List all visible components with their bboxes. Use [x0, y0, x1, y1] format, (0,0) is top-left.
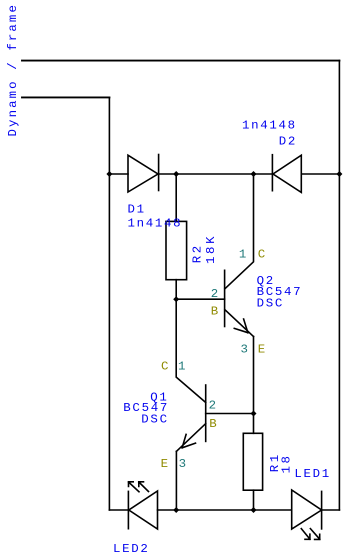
svg-text:B: B [211, 305, 220, 319]
svg-text:R2: R2 [191, 243, 205, 263]
resistor R1 [243, 433, 262, 490]
transistor Q2 [225, 174, 254, 337]
wire Q1 collector lead [176, 299, 206, 402]
transistor Q1 [176, 385, 205, 451]
junction left rail / mid rail [106, 171, 112, 177]
LED LED1 [292, 490, 322, 539]
svg-text:C: C [161, 360, 170, 374]
wire mid rail middle [159, 173, 273, 175]
wire dynamo lead (top rail) [22, 60, 339, 62]
resistor R2 [166, 221, 187, 279]
svg-text:3: 3 [179, 457, 188, 471]
wire mid rail left [109, 173, 128, 175]
wire R1 bottom lead [253, 490, 255, 510]
svg-text:1n4148: 1n4148 [242, 119, 297, 133]
svg-text:1: 1 [178, 360, 187, 374]
svg-text:Dynamo / frame: Dynamo / frame [6, 3, 20, 137]
diode D2 [272, 155, 301, 193]
svg-text:D2: D2 [279, 135, 297, 149]
wire bottom rail left [109, 509, 128, 511]
junction Q2 collector / mid rail [251, 171, 257, 177]
wire Q2 base lead [176, 298, 224, 300]
wire left rail [108, 97, 110, 510]
wire Q1 emitter lead [175, 451, 177, 510]
wire bottom rail middle [158, 509, 292, 511]
svg-text:E: E [258, 343, 267, 357]
junction R2 / Q2 base node [173, 296, 179, 302]
svg-text:DSC: DSC [141, 412, 168, 426]
svg-text:1n4148: 1n4148 [128, 217, 183, 231]
svg-text:18K: 18K [204, 234, 218, 264]
svg-text:C: C [258, 247, 267, 261]
svg-text:E: E [161, 457, 170, 471]
diode D1 [128, 155, 159, 193]
svg-text:B: B [209, 417, 218, 431]
svg-text:DSC: DSC [257, 297, 284, 311]
wire bottom rail right [322, 509, 340, 511]
wire Q2 emitter lead [253, 337, 255, 414]
svg-text:18: 18 [280, 453, 294, 473]
LED LED2 [128, 482, 157, 529]
wire right rail [338, 61, 340, 510]
svg-text:D1: D1 [128, 202, 146, 216]
wire R1 top lead [253, 414, 255, 434]
wire frame lead [22, 96, 109, 98]
junction right rail / mid rail [336, 171, 342, 177]
svg-text:3: 3 [241, 343, 250, 357]
junction R2 / mid rail [173, 171, 179, 177]
wire Q1 base lead [206, 413, 254, 415]
junction Q1 base / R1 node [251, 411, 257, 417]
svg-text:LED2: LED2 [113, 542, 150, 556]
svg-text:2: 2 [211, 287, 220, 301]
junction Q1 emitter / bottom rail [173, 507, 179, 513]
junction R1 / bottom rail [251, 507, 257, 513]
wire R2 top lead [175, 174, 177, 221]
svg-text:1: 1 [239, 247, 248, 261]
wire R2 bottom lead [175, 280, 177, 300]
svg-text:2: 2 [209, 398, 218, 412]
svg-text:LED1: LED1 [294, 467, 331, 481]
wire mid rail right [301, 173, 339, 175]
